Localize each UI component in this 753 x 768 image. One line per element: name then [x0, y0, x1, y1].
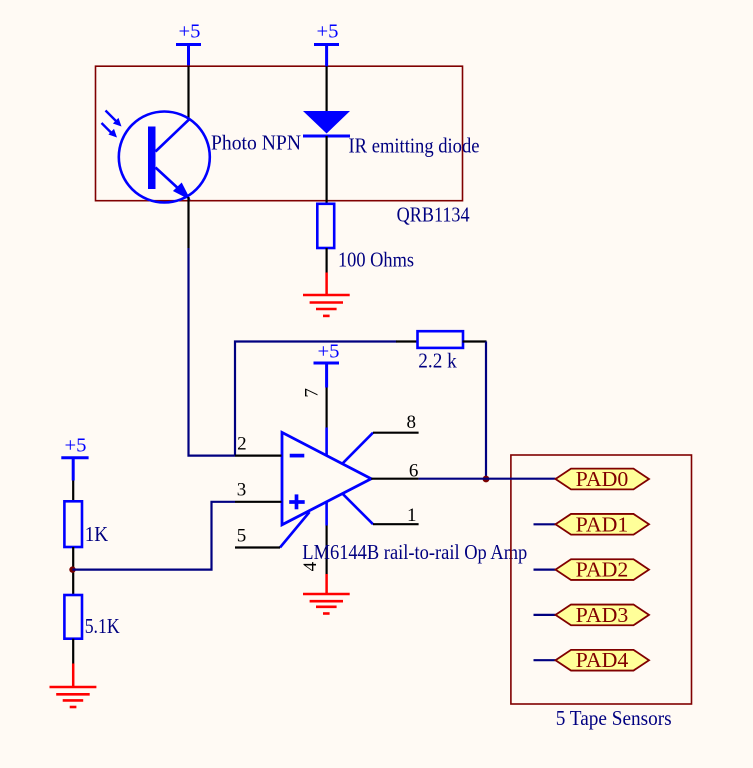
pin: photo transistor collector to +5 [187, 66, 189, 120]
ground (below 100 Ohms) [303, 273, 350, 316]
pin 7 [326, 388, 328, 428]
pin: diode cathode [326, 136, 328, 204]
svg-text:LM6144B rail-to-rail Op Amp: LM6144B rail-to-rail Op Amp [302, 540, 527, 564]
pin: diode anode [326, 66, 328, 112]
resistor 5.1K [64, 595, 82, 639]
wire op-amp output to PAD0 [419, 478, 556, 480]
wire feedback (pin2 up and across) [235, 342, 397, 456]
wire stub PAD2 [534, 568, 556, 570]
op-amp U1 LM6144B [280, 428, 373, 548]
resistor 1K [64, 501, 82, 547]
resistor 2.2 k [418, 331, 464, 348]
svg-text:6: 6 [409, 461, 419, 482]
5 Tape Sensors box [511, 455, 692, 704]
IR emitting diode D1 [303, 111, 350, 136]
power +5 (IR diode anode) [314, 21, 339, 67]
svg-text:1: 1 [407, 505, 417, 526]
wire divider tap to op-amp pin 3 [73, 502, 236, 570]
port PAD1 [556, 512, 650, 536]
pin 3 [235, 501, 282, 503]
svg-text:+5: +5 [179, 21, 201, 43]
QRB1134 module box [96, 66, 463, 201]
svg-text:IR emitting diode: IR emitting diode [349, 134, 480, 158]
wire feedback down to output node [485, 342, 487, 480]
pin: 2.2k right [463, 340, 487, 342]
svg-text:PAD4: PAD4 [576, 648, 629, 672]
pin: photo transistor emitter [187, 197, 189, 248]
svg-text:2: 2 [237, 434, 247, 455]
wire stub PAD4 [534, 659, 556, 661]
port PAD4 [556, 648, 650, 672]
svg-text:+5: +5 [318, 341, 340, 363]
wire stub PAD1 [534, 523, 556, 525]
port PAD0 [556, 467, 650, 491]
pin 1 [373, 523, 419, 525]
svg-text:PAD1: PAD1 [576, 512, 629, 536]
svg-text:PAD2: PAD2 [576, 558, 629, 582]
svg-text:2.2 k: 2.2 k [418, 349, 457, 373]
resistor 100 Ohms [317, 204, 334, 248]
svg-text:PAD3: PAD3 [576, 603, 629, 627]
pin: resistor to ground [326, 248, 328, 273]
ground (op-amp pin 4) [303, 574, 350, 614]
svg-text:100 Ohms: 100 Ohms [338, 248, 414, 272]
svg-text:PAD0: PAD0 [576, 467, 629, 491]
power +5 (op-amp pin 7) [314, 341, 340, 388]
svg-text:1K: 1K [85, 522, 109, 546]
power +5 (photo transistor collector) [176, 21, 201, 67]
svg-text:5.1K: 5.1K [85, 614, 120, 638]
pin 2 [235, 455, 282, 457]
svg-text:QRB1134: QRB1134 [397, 203, 470, 227]
photo NPN transistor Q1 [102, 111, 210, 203]
svg-text:Photo NPN: Photo NPN [211, 131, 301, 155]
svg-text:5 Tape Sensors: 5 Tape Sensors [556, 706, 672, 730]
wire emitter to op-amp pin 2 [189, 248, 236, 456]
pin: 1K top [72, 481, 74, 502]
svg-text:8: 8 [407, 412, 417, 433]
power +5 (voltage divider) [61, 435, 88, 481]
pin 4 [326, 526, 328, 575]
junction dot divider [69, 566, 75, 572]
wire stub PAD3 [534, 614, 556, 616]
svg-text:3: 3 [237, 480, 247, 501]
pin 8 [373, 432, 419, 434]
svg-text:+5: +5 [65, 435, 87, 457]
svg-text:+5: +5 [317, 21, 339, 43]
pin: divider middle [72, 547, 74, 595]
pin: 2.2k left [396, 340, 418, 342]
ground (voltage divider) [50, 664, 97, 708]
port PAD3 [556, 603, 650, 627]
pin: 5.1K bottom [72, 639, 74, 664]
pin 5 [235, 546, 280, 548]
port PAD2 [556, 558, 650, 582]
svg-text:7: 7 [301, 388, 322, 398]
junction dot output node [483, 476, 490, 483]
svg-text:5: 5 [237, 525, 247, 546]
pin 6 [371, 478, 418, 480]
